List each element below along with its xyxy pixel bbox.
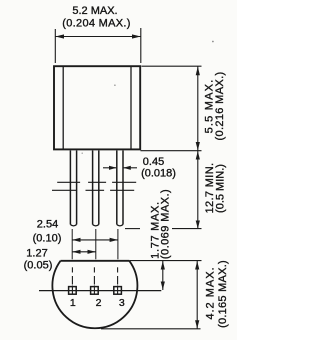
svg-text:3: 3	[119, 297, 125, 309]
svg-text:5.2 MAX.: 5.2 MAX.	[72, 5, 117, 17]
svg-text:(0.05): (0.05)	[24, 260, 53, 272]
svg-text:(0.216 MAX.): (0.216 MAX.)	[214, 71, 226, 140]
svg-text:1: 1	[70, 297, 76, 309]
svg-text:(0.165 MAX.): (0.165 MAX.)	[217, 260, 229, 328]
svg-text:(0.10): (0.10)	[33, 233, 62, 245]
svg-text:(0.069 MAX.): (0.069 MAX.)	[160, 189, 172, 259]
svg-text:4.2 MAX.: 4.2 MAX.	[205, 266, 217, 319]
svg-text:0.45: 0.45	[143, 156, 164, 168]
svg-text:1.27: 1.27	[26, 248, 47, 260]
svg-text:2.54: 2.54	[37, 219, 58, 231]
svg-text:(0.018): (0.018)	[141, 168, 176, 180]
svg-text:2: 2	[96, 297, 102, 309]
svg-text:(0.5 MIN.): (0.5 MIN.)	[215, 164, 227, 213]
svg-text:(0.204 MAX.): (0.204 MAX.)	[62, 18, 130, 30]
